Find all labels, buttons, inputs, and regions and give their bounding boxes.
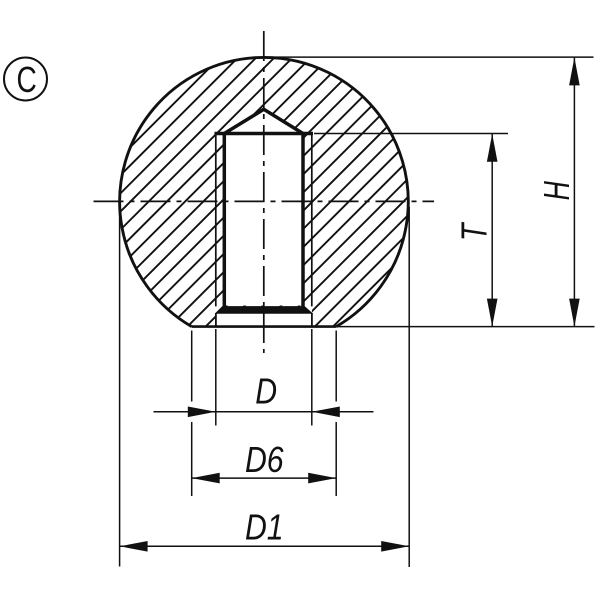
T arrowhead top	[487, 134, 498, 162]
counterbore side right	[311, 313, 313, 327]
D6 arrowhead left	[192, 473, 220, 484]
H / T extension line bottom	[336, 326, 594, 328]
T arrowhead bottom	[487, 299, 498, 327]
D6 extension line left (broken at D arrow)	[191, 331, 193, 402]
hole top line (thick)	[215, 132, 314, 136]
svg-text:D6: D6	[245, 441, 284, 481]
drill point cone	[224, 109, 303, 133]
tapped hole bore line left (thick)	[223, 132, 227, 306]
svg-text:T: T	[453, 222, 494, 241]
horizontal centerline	[94, 200, 435, 202]
flat bottom chord	[192, 325, 337, 328]
tapped hole bore line right (thick)	[301, 132, 305, 306]
D1 dimension line	[120, 545, 410, 547]
D arrowhead left	[188, 407, 216, 418]
D arrowhead right	[312, 407, 340, 418]
counterbore side left	[215, 313, 217, 327]
D6 arrowhead right	[308, 473, 336, 484]
D1 arrowhead right	[381, 541, 409, 552]
H arrowhead bottom	[569, 299, 580, 327]
D extension line left	[215, 329, 217, 426]
form symbol circle	[4, 58, 47, 101]
thread major diameter line left (thin)	[215, 134, 217, 307]
thread insert / chamfer bar (solid black)	[216, 307, 312, 314]
H dimension line	[573, 57, 575, 326]
thread major diameter line right (thin)	[311, 134, 313, 307]
H arrowhead top	[569, 57, 580, 85]
svg-text:D1: D1	[245, 508, 284, 548]
D1 extension line right	[408, 207, 410, 567]
T extension line top	[314, 133, 508, 135]
D1 arrowhead left	[120, 541, 148, 552]
H extension line top	[264, 56, 594, 58]
svg-text:D: D	[255, 372, 277, 412]
svg-text:C: C	[17, 60, 37, 100]
vertical centerline	[263, 31, 265, 353]
D1 extension line left	[119, 207, 121, 567]
T dimension line	[491, 134, 493, 327]
svg-text:H: H	[536, 180, 577, 200]
D extension line right	[311, 329, 313, 426]
ball outline (sphere silhouette)	[120, 57, 409, 326]
D6 dimension line	[192, 477, 337, 479]
D6 extension line right (broken at D arrow)	[335, 331, 337, 402]
D dimension line	[154, 411, 374, 413]
